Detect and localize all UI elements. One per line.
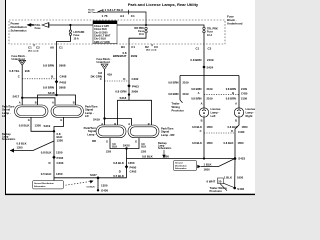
fuse PRK/TAIL — [29, 23, 49, 31]
svg-text:1650: 1650 — [204, 168, 211, 172]
svg-text:0.8 BRN: 0.8 BRN — [168, 80, 178, 84]
wire 0.8 YEL 918 — [21, 65, 23, 105]
svg-text:D: D — [123, 77, 125, 81]
label 0.8 BLK 1350 on rail — [142, 154, 169, 158]
svg-text:B: B — [232, 91, 234, 95]
svg-text:C: C — [200, 129, 202, 133]
off-page flag connector LT BLU — [98, 10, 147, 25]
wire 0.8 BLK down to ground box — [53, 131, 55, 180]
svg-text:0.8 BLK: 0.8 BLK — [223, 141, 233, 145]
label 0.8 YEL 918 — [9, 69, 30, 73]
label Trailer Wiring Provision — [172, 102, 185, 113]
connector D2 C3 not used — [145, 44, 158, 52]
pin letters lamps 3-4 — [101, 122, 150, 126]
labels 0.8 BLK 1650 row2 — [192, 141, 244, 145]
wires from connector 20 to S402 — [220, 183, 234, 191]
svg-text:C: C — [100, 77, 102, 81]
svg-text:License: License — [211, 107, 222, 111]
fuse TRL PRK 10A — [203, 27, 218, 44]
pin letters lamps 1-2 — [19, 100, 75, 104]
junction license left to rail — [203, 157, 205, 159]
lamp License Right — [234, 108, 243, 118]
svg-text:1350: 1350 — [101, 183, 108, 187]
label Park/Turn Signal Lamp - LR (2) — [85, 104, 98, 118]
svg-text:Right: Right — [246, 114, 253, 118]
svg-text:S418: S418 — [48, 91, 55, 95]
svg-text:C402: C402 — [130, 169, 137, 173]
svg-text:Underhood: Underhood — [227, 22, 243, 26]
svg-text:1350: 1350 — [141, 150, 147, 153]
svg-text:2908: 2908 — [59, 86, 66, 90]
svg-text:RR: RR — [92, 139, 96, 143]
splice S418 (mid) — [120, 93, 131, 100]
svg-text:2109: 2109 — [207, 58, 214, 62]
svg-text:GMC 2.7 GRN: GMC 2.7 GRN — [94, 41, 110, 44]
ground distribution schematics box 1 — [33, 180, 95, 189]
svg-text:B: B — [201, 119, 203, 123]
svg-text:LR: LR — [85, 114, 89, 118]
wire 0.8 BRN/WHT 2909 — [128, 44, 130, 95]
labels 0.8 BLK 1650 row1 — [192, 125, 248, 129]
svg-text:Schematics: Schematics — [11, 29, 27, 33]
svg-text:C1: C1 — [131, 45, 135, 49]
splice S419 (mid) — [93, 117, 106, 121]
svg-text:Lamp -: Lamp - — [246, 110, 255, 114]
svg-text:D: D — [231, 129, 233, 133]
svg-text:(Not used): (Not used) — [28, 49, 39, 52]
label 1 BLK 1650 (vertical wire) — [224, 176, 244, 180]
svg-text:C430: C430 — [241, 92, 248, 96]
splice S419 — [44, 124, 56, 132]
backup lamp schematics tap — [158, 142, 172, 158]
wire rail to lamp3/4 A pins — [105, 119, 132, 126]
label 0.8 DK GRN 419 — [91, 71, 113, 78]
svg-text:C408: C408 — [60, 75, 67, 79]
svg-text:0.8 BLK: 0.8 BLK — [87, 187, 96, 189]
svg-text:2908: 2908 — [59, 64, 66, 68]
svg-text:1350: 1350 — [56, 172, 63, 176]
label Fuse Block - Underhood (left connector) — [12, 55, 27, 61]
svg-text:S424: S424 — [207, 66, 214, 70]
svg-text:1650: 1650 — [242, 125, 248, 129]
svg-text:A: A — [128, 122, 130, 126]
label 0.8 BLK 1350 — [113, 161, 135, 165]
wire rail to lamp A pins — [22, 98, 55, 105]
lamp Park/Turn Signal - LR (2) — [51, 105, 84, 117]
page background — [0, 0, 255, 198]
svg-text:C1: C1 — [28, 46, 32, 50]
splice S424 — [203, 66, 214, 70]
svg-text:10 A: 10 A — [207, 34, 212, 37]
svg-text:S427: S427 — [90, 173, 97, 177]
svg-text:G: G — [135, 139, 137, 143]
svg-text:918: 918 — [25, 69, 30, 73]
page border left — [5, 0, 6, 195]
svg-text:A: A — [201, 101, 203, 105]
svg-text:A: A — [198, 91, 200, 95]
svg-text:BRN/WHT: BRN/WHT — [113, 54, 127, 58]
label 0.8 BLK 1350 (lower) — [41, 150, 63, 154]
svg-text:LR: LR — [2, 114, 6, 118]
label 0.8 BRN 2109 (leg) — [168, 80, 189, 84]
wire lamp1 ground — [31, 117, 54, 131]
svg-text:2109: 2109 — [241, 87, 247, 91]
connector pin B3 C1 — [121, 45, 135, 49]
svg-text:A: A — [19, 100, 21, 104]
svg-text:0.8 BLK: 0.8 BLK — [227, 125, 237, 129]
splice P402 — [55, 80, 67, 85]
svg-text:1 BLK: 1 BLK — [204, 163, 212, 167]
svg-text:G: G — [106, 139, 108, 143]
svg-text:Ground Distribution: Ground Distribution — [34, 182, 54, 185]
svg-text:0.8 BRN: 0.8 BRN — [191, 97, 201, 101]
svg-text:2109: 2109 — [207, 87, 213, 91]
svg-text:0.8 GRN: 0.8 GRN — [115, 89, 126, 93]
svg-text:0.8 BRN: 0.8 BRN — [191, 87, 201, 91]
label Park/Turn Signal Lamp - RR (4) — [161, 127, 174, 137]
svg-text:Schematics: Schematics — [2, 138, 16, 141]
svg-text:Wiring: Wiring — [172, 105, 181, 109]
label Trailer Wiring Provision (bottom) — [210, 186, 228, 193]
svg-text:1 0.8 LT BLU: 1 0.8 LT BLU — [105, 8, 124, 12]
splice S418 — [48, 91, 58, 96]
fuse RR PRK 10A — [129, 24, 147, 44]
svg-text:10 A: 10 A — [74, 37, 79, 40]
svg-text:1350: 1350 — [17, 146, 23, 150]
svg-text:G: G — [28, 118, 30, 122]
svg-text:0.8 BRN: 0.8 BRN — [43, 86, 54, 90]
svg-text:Provision: Provision — [210, 189, 223, 193]
svg-text:B: B — [51, 75, 53, 79]
svg-text:1350: 1350 — [106, 150, 112, 153]
svg-text:2109: 2109 — [183, 92, 189, 96]
lamp License Left — [199, 108, 208, 118]
lamp Park/Turn Signal - RR (3) — [96, 125, 126, 138]
label 6 WHT and connector 20 — [207, 178, 224, 184]
svg-text:Fuse: Fuse — [35, 27, 41, 30]
svg-text:2109: 2109 — [183, 80, 189, 84]
svg-text:1 BLK: 1 BLK — [224, 176, 232, 180]
labels 0.8 BLK for G wires — [106, 143, 147, 154]
svg-text:0.8 BRN: 0.8 BRN — [226, 97, 236, 101]
label 0.8 BLK 1350 — [19, 124, 42, 128]
connector C430 dashed (bottom) — [204, 132, 235, 134]
svg-text:C430: C430 — [238, 130, 245, 134]
chain below rail to S427 — [126, 159, 128, 178]
label Fuse Block - Underhood (mid connector) — [97, 58, 112, 64]
bus from S424 — [180, 67, 239, 108]
svg-text:0.8 BRN: 0.8 BRN — [43, 64, 54, 68]
svg-text:Schematics: Schematics — [175, 167, 187, 170]
svg-text:S423: S423 — [238, 157, 245, 161]
svg-text:B3: B3 — [121, 45, 125, 49]
svg-text:S420: S420 — [123, 144, 130, 148]
svg-text:(Not used): (Not used) — [146, 49, 157, 52]
junction dot — [69, 24, 71, 26]
svg-text:B: B — [235, 119, 237, 123]
svg-text:1650: 1650 — [207, 141, 213, 145]
pin D of C403 — [49, 161, 64, 165]
fuse block underhood dashed box — [9, 20, 225, 44]
svg-text:C402: C402 — [132, 77, 139, 81]
svg-text:S419: S419 — [93, 117, 100, 121]
svg-text:C3: C3 — [208, 47, 212, 51]
label 1350 G450 — [101, 183, 108, 192]
svg-text:1350: 1350 — [56, 150, 63, 154]
svg-text:Schematics: Schematics — [34, 185, 46, 188]
splice P402 (ground) — [52, 155, 63, 159]
svg-text:1350: 1350 — [57, 138, 64, 142]
svg-text:0.8 BRN: 0.8 BRN — [226, 87, 236, 91]
label Park/Turn Signal Lamp - RR (3) — [84, 126, 97, 143]
svg-text:2909: 2909 — [131, 54, 138, 58]
labels 0.8 BRN 2109 license left row1 — [191, 87, 213, 91]
svg-text:D2: D2 — [145, 45, 149, 49]
svg-text:A4: A4 — [120, 14, 124, 18]
splice S417 — [13, 95, 24, 99]
wire to ground G450 — [97, 178, 99, 191]
svg-text:10 A: 10 A — [139, 33, 144, 36]
svg-text:0.8 BLK: 0.8 BLK — [192, 141, 202, 145]
connector symbol left — [19, 60, 26, 65]
svg-text:1 76: 1 76 — [102, 14, 108, 18]
svg-text:Trailer: Trailer — [172, 102, 180, 106]
label License Lamp - Left — [211, 107, 222, 118]
page border bottom — [5, 194, 255, 195]
pin D of C402 ground — [119, 169, 137, 173]
svg-text:D: D — [49, 161, 51, 165]
svg-text:S402: S402 — [237, 187, 244, 191]
svg-text:0.8 BLK: 0.8 BLK — [17, 142, 27, 146]
connector pin A8 C1 — [50, 46, 63, 50]
splice P400 — [125, 165, 137, 169]
svg-text:Lamp -: Lamp - — [87, 132, 96, 136]
splice S427 — [90, 173, 99, 179]
label 0.8 BRN/WHT 2909 — [113, 51, 138, 58]
svg-text:G450: G450 — [101, 188, 108, 192]
svg-text:0.8 BRN: 0.8 BRN — [190, 58, 201, 62]
svg-text:C403: C403 — [57, 161, 64, 165]
svg-text:0.5 BLK: 0.5 BLK — [41, 172, 53, 176]
wire rail to lamp B pins — [38, 95, 76, 105]
svg-text:All Times: All Times — [88, 11, 98, 14]
connector C430 dashed (top) — [204, 94, 239, 96]
lamp Park/Turn Signal - RR (4) — [128, 125, 159, 138]
label License Lamp - Right — [246, 107, 257, 118]
svg-text:Provision: Provision — [172, 109, 185, 113]
svg-text:B: B — [35, 100, 37, 104]
svg-text:Trailer Wiring: Trailer Wiring — [210, 186, 228, 190]
wire lamp2 ground — [54, 117, 64, 131]
svg-text:S418: S418 — [120, 96, 127, 100]
splice P403 — [127, 84, 139, 88]
label Fuse Block - Underhood — [227, 15, 243, 26]
svg-text:Lamp - RR: Lamp - RR — [161, 133, 174, 137]
wire S423 down to S402 — [234, 159, 236, 189]
svg-text:6 WHT: 6 WHT — [207, 179, 216, 183]
svg-text:A: A — [52, 100, 54, 104]
connector C1 C2 not used — [28, 44, 40, 52]
svg-text:Left: Left — [211, 114, 216, 118]
svg-text:Distribution: Distribution — [175, 164, 187, 167]
svg-text:BLK: BLK — [141, 146, 146, 149]
svg-text:1650: 1650 — [238, 141, 244, 145]
label 0.8 GRN 2909 — [115, 89, 138, 93]
svg-text:0.8 BLK: 0.8 BLK — [19, 124, 31, 128]
label 0.8 BRN 2109 — [190, 58, 213, 62]
svg-text:BLK: BLK — [112, 146, 117, 149]
ground distribution schematics box 2 — [174, 159, 236, 171]
wires license lamps down — [204, 118, 239, 159]
svg-text:Ground: Ground — [175, 162, 183, 165]
svg-text:0.8 YEL: 0.8 YEL — [9, 69, 20, 73]
svg-text:1650: 1650 — [207, 125, 213, 129]
svg-text:S417: S417 — [13, 95, 20, 99]
connector symbol mid — [101, 64, 108, 70]
wire lamp3 ground — [110, 138, 139, 149]
svg-text:P403: P403 — [132, 84, 139, 88]
svg-text:C3: C3 — [154, 45, 158, 49]
svg-text:Park and License Lamps, Rear: Park and License Lamps, Rear Utility — [128, 2, 199, 7]
trailer provision leg arrow — [180, 100, 183, 103]
label Park/Turn Signal Lamp - LR — [2, 104, 15, 118]
svg-text:0.8 BLK: 0.8 BLK — [142, 154, 154, 158]
label 0.8 BRN 2109 (leg lower) — [168, 92, 189, 96]
svg-text:Schematics: Schematics — [158, 147, 172, 150]
label 0.5 BLK 1350 — [41, 172, 63, 176]
ground rail to S423 — [127, 158, 236, 160]
svg-text:C2: C2 — [36, 46, 40, 50]
connector pin A4 C1 — [120, 10, 135, 18]
backup lamp schematics stub — [2, 133, 54, 153]
label 1 BLK 1650 — [204, 163, 212, 172]
svg-text:P402: P402 — [57, 156, 64, 160]
connector C402 dashed — [105, 80, 130, 82]
wire bus inside fuse block — [49, 25, 204, 27]
label 0.8 BLK 1350 stack — [57, 132, 64, 142]
svg-text:0.8 BRN: 0.8 BRN — [168, 92, 178, 96]
wire 0.8 DK GRN 419 — [104, 70, 106, 119]
svg-text:1650: 1650 — [237, 176, 244, 180]
svg-text:2109: 2109 — [241, 97, 247, 101]
note table — [93, 21, 117, 44]
svg-text:0.8 BLK: 0.8 BLK — [41, 150, 53, 154]
svg-text:419: 419 — [107, 73, 112, 77]
lamp Park/Turn Signal - LR (1) — [15, 105, 49, 117]
svg-text:Underhood: Underhood — [97, 61, 111, 64]
svg-text:Lamp -: Lamp - — [211, 110, 220, 114]
splice S423 — [234, 157, 246, 161]
labels 0.8 BRN 2109 below connector — [191, 97, 247, 101]
svg-text:0.5 BLK: 0.5 BLK — [113, 174, 125, 178]
ground rail to S427 — [54, 177, 127, 179]
svg-text:0.8 BLK: 0.8 BLK — [192, 125, 202, 129]
svg-text:20: 20 — [218, 180, 222, 184]
wire bar to lamp3/4 B pins — [118, 95, 152, 125]
label 0.8 BRN 2908 — [43, 64, 66, 68]
svg-text:2909: 2909 — [132, 89, 139, 93]
power feed arrow — [27, 23, 32, 27]
svg-text:C1: C1 — [196, 47, 200, 51]
hot-at-all-times tag — [88, 9, 98, 15]
svg-text:2109: 2109 — [207, 97, 213, 101]
connector pin C1 C3 — [196, 47, 212, 51]
splice S420 — [123, 144, 130, 150]
label 0.5 BLK 1350 — [113, 174, 136, 178]
svg-text:0.8 BLK: 0.8 BLK — [113, 161, 125, 165]
fuse LR PARK 10A — [57, 25, 85, 44]
labels right side C430 row1 — [226, 87, 248, 96]
svg-text:C1: C1 — [131, 14, 135, 18]
label Power Distribution Schematics — [11, 22, 27, 33]
svg-text:C1: C1 — [59, 46, 63, 50]
svg-text:B: B — [73, 100, 75, 104]
svg-text:License: License — [246, 107, 256, 111]
svg-text:D: D — [119, 169, 121, 173]
svg-text:S419: S419 — [44, 124, 51, 128]
svg-text:Hot At: Hot At — [88, 9, 95, 12]
label 0.8 BRN 2908 lower — [43, 86, 66, 90]
wire 0.8 BRN 2109 from fuse block — [203, 44, 205, 67]
splice S402 — [233, 187, 244, 191]
svg-text:A: A — [235, 101, 237, 105]
svg-text:A8: A8 — [50, 46, 54, 50]
wire S420 down to ground rail — [126, 149, 128, 159]
svg-text:G: G — [60, 118, 62, 122]
svg-text:C: C — [18, 75, 20, 79]
connector C408 dashed — [22, 78, 56, 80]
svg-text:1350: 1350 — [35, 124, 42, 128]
svg-text:P402: P402 — [60, 80, 67, 84]
wire 0.8 BRN 2908 — [56, 44, 58, 95]
